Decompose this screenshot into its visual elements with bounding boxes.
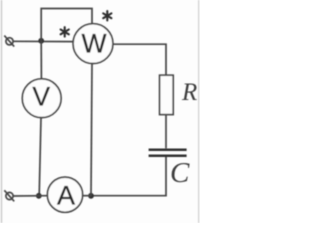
resistor R xyxy=(160,75,174,114)
polarity mark asterisk (current coil) xyxy=(61,27,69,36)
wire W right to resistor branch xyxy=(113,44,166,75)
svg-text:C: C xyxy=(170,157,190,189)
wire bottom rail terminal to ammeter xyxy=(13,195,48,197)
node junction J1 xyxy=(38,38,44,44)
wire J1 down to voltmeter xyxy=(40,41,42,79)
polarity mark asterisk (voltage coil) xyxy=(103,11,111,20)
wire wattmeter bottom (voltage coil return) down to J3 xyxy=(91,64,92,196)
wire capacitor down and along bottom to junction J3 xyxy=(91,157,166,196)
svg-text:R: R xyxy=(181,79,197,106)
node junction J2 xyxy=(36,193,42,199)
ammeter A1 circle xyxy=(47,177,82,212)
voltmeter V1 circle xyxy=(22,79,61,118)
wattmeter W1 circle xyxy=(73,24,113,64)
wire top rail: terminal to wattmeter xyxy=(13,40,73,42)
page edge left xyxy=(1,0,3,223)
terminal T1 (top left clamp) xyxy=(4,36,14,47)
page edge right xyxy=(198,0,200,223)
svg-text:W: W xyxy=(81,28,106,58)
terminal T2 (bottom left clamp) xyxy=(4,190,14,201)
svg-text:A: A xyxy=(57,181,75,211)
wire voltage-coil loop (J1 up, across, down to W top) xyxy=(41,9,92,41)
svg-text:V: V xyxy=(32,81,50,111)
capacitor C plates xyxy=(149,150,187,156)
wire ammeter right to J3 xyxy=(83,195,91,197)
wire voltmeter bottom to junction J2 xyxy=(39,118,41,196)
wire resistor to capacitor xyxy=(165,115,167,149)
node junction J3 xyxy=(88,193,94,199)
